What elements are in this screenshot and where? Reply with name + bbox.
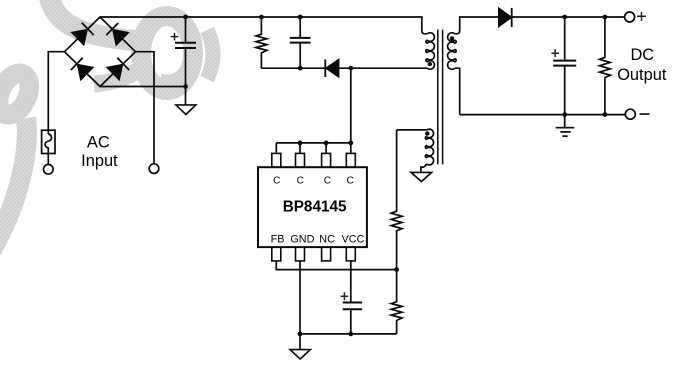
svg-text:C: C <box>347 176 354 187</box>
svg-text:AC: AC <box>87 134 110 152</box>
svg-text:BP84145: BP84145 <box>283 198 347 215</box>
svg-text:Input: Input <box>81 152 118 170</box>
svg-text:GND: GND <box>290 233 314 245</box>
svg-text:C: C <box>273 176 280 187</box>
svg-text:Output: Output <box>617 66 667 84</box>
svg-text:NC: NC <box>319 233 335 245</box>
svg-text:VCC: VCC <box>342 233 365 245</box>
svg-text:DC: DC <box>630 46 654 64</box>
svg-text:FB: FB <box>271 233 285 245</box>
svg-text:C: C <box>324 176 331 187</box>
svg-text:C: C <box>297 176 304 187</box>
